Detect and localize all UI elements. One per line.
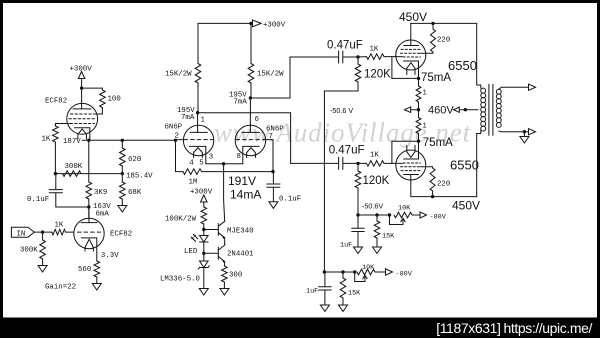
svg-text:0.47uF: 0.47uF — [329, 145, 365, 157]
svg-text:75mA: 75mA — [421, 72, 451, 84]
capacitor 1uF lower — [306, 272, 331, 305]
node cathode bottom — [417, 137, 453, 149]
label -50.6V top — [330, 106, 353, 115]
label Gain=22 — [45, 284, 76, 292]
wire grid V3 — [176, 139, 185, 141]
wire cathode V1 to 187V — [89, 128, 91, 141]
svg-text:8: 8 — [237, 153, 241, 161]
tube V6 6550 bottom — [396, 146, 426, 197]
wire Q2 collector — [224, 243, 226, 245]
svg-text:6550: 6550 — [450, 158, 479, 173]
wire IN to grid — [34, 231, 52, 233]
svg-text:560: 560 — [78, 266, 91, 274]
capacitor 1uF upper — [340, 215, 364, 249]
svg-text:6mA: 6mA — [96, 211, 110, 219]
node 460V tap — [417, 108, 420, 111]
label 191V 14mA — [228, 174, 261, 202]
power flag +300V stage1 — [70, 66, 93, 89]
resistor 1 bottom — [416, 110, 427, 142]
svg-text:IN: IN — [17, 230, 26, 238]
ground 300K — [38, 266, 47, 273]
wire primary top — [477, 23, 481, 88]
svg-text:191V: 191V — [228, 174, 256, 188]
svg-text:-50.6V: -50.6V — [362, 201, 383, 210]
resistor 15K/2W right — [248, 23, 284, 98]
wire primary bottom — [477, 130, 481, 196]
power flag +300V LTP — [253, 20, 286, 29]
ground 300 — [220, 289, 229, 296]
ground 1uF lower — [320, 305, 329, 312]
resistor 15K/2W left — [165, 23, 201, 112]
capacitor 0.47uF top — [327, 40, 363, 64]
wire bias bus upper — [358, 214, 390, 216]
svg-text:1uF: 1uF — [306, 287, 318, 295]
label pin6 — [255, 116, 259, 124]
node tail — [222, 162, 225, 165]
svg-text:1K: 1K — [55, 221, 64, 229]
svg-text:+300V: +300V — [70, 66, 93, 74]
svg-text:300K: 300K — [65, 163, 83, 171]
wire left plate to coupling2 — [198, 113, 339, 164]
label pin8 — [237, 153, 241, 161]
svg-text:7mA: 7mA — [234, 99, 248, 107]
svg-text:6550: 6550 — [448, 58, 477, 73]
svg-text:185.4V: 185.4V — [126, 173, 153, 181]
wire secondary top — [499, 87, 528, 89]
wire LED to zener — [203, 242, 205, 253]
resistor 1K g2 — [358, 152, 402, 167]
transformer T1 secondary — [496, 89, 501, 127]
wire 100 branch — [82, 88, 103, 90]
resistor 300K horizontal — [63, 163, 83, 176]
svg-text:10K: 10K — [398, 204, 411, 212]
svg-text:0.1uF: 0.1uF — [279, 196, 301, 204]
terminal output+ — [529, 84, 536, 90]
node bias upper — [356, 201, 383, 216]
svg-text:LED: LED — [184, 248, 198, 256]
ground secondary — [520, 132, 529, 143]
rail +300V LTP — [198, 22, 252, 24]
svg-text:15K/2W: 15K/2W — [257, 71, 284, 79]
label 6550 top — [448, 58, 477, 73]
svg-text:15K/2W: 15K/2W — [165, 71, 192, 79]
node 163V — [87, 203, 111, 219]
node rail — [249, 22, 252, 25]
node 220 top — [431, 22, 434, 25]
ground 68K — [118, 206, 127, 213]
svg-text:[1187x631]https://upic.me/: [1187x631]https://upic.me/ — [436, 320, 592, 336]
node 1K-cap junction — [54, 172, 57, 175]
svg-text:ECF82: ECF82 — [45, 98, 67, 106]
svg-text:5: 5 — [199, 160, 203, 168]
wire cap1 to grid — [343, 56, 358, 58]
tube V1 ECF82 pentode — [67, 103, 98, 139]
resistor 560 — [78, 261, 100, 284]
label pin1 — [201, 117, 206, 125]
node 15K upper — [375, 213, 378, 216]
wire tail to Q1 collector — [224, 172, 225, 222]
svg-text:Gain=22: Gain=22 — [45, 284, 76, 292]
wire grid drop to 1M — [176, 140, 184, 171]
resistor 15K lower — [340, 272, 361, 305]
diode LED — [184, 230, 208, 257]
wire cathode box bottom — [392, 141, 419, 163]
svg-text:-80V: -80V — [396, 270, 413, 278]
watermark — [214, 118, 472, 148]
svg-text:75mA: 75mA — [423, 137, 453, 149]
wire center tap — [465, 109, 478, 111]
wire bias bus lower — [324, 271, 355, 273]
resistor 68K — [120, 174, 142, 206]
rail 450V bottom — [411, 196, 477, 198]
wire 185.4V bus — [55, 173, 122, 175]
wire Q1 emitter to Q2 — [224, 238, 226, 243]
svg-text:220: 220 — [437, 36, 450, 44]
svg-text:15K: 15K — [382, 232, 395, 240]
resistor 15K upper — [374, 215, 395, 247]
ground 1uF upper — [354, 247, 363, 254]
resistor 620 — [120, 140, 142, 173]
label 460V — [428, 104, 454, 116]
svg-text:LM336-5.0: LM336-5.0 — [160, 276, 200, 284]
flag -80V lower — [375, 269, 413, 279]
resistor 100 — [100, 90, 121, 108]
ground 560 — [92, 284, 101, 291]
label 450V bottom — [452, 199, 480, 213]
svg-text:3: 3 — [209, 154, 213, 162]
resistor 1K g1 — [358, 45, 402, 59]
svg-text:3K9: 3K9 — [94, 189, 107, 197]
svg-text:1K: 1K — [370, 45, 379, 53]
node pot lower — [353, 270, 356, 273]
svg-text:68K: 68K — [128, 189, 142, 197]
svg-text:450V: 450V — [399, 10, 427, 24]
label 6550 bottom — [450, 158, 479, 173]
svg-text:120K: 120K — [364, 69, 391, 81]
wire cathode box top — [392, 57, 419, 79]
terminal IN — [11, 227, 34, 238]
wire cathode V4 pin8 — [242, 146, 244, 163]
wire cathode bus — [206, 163, 243, 165]
node grid V4 bypass — [271, 170, 274, 173]
svg-text:1: 1 — [423, 90, 427, 98]
node grid2 — [356, 162, 359, 165]
terminal output- — [529, 129, 536, 135]
svg-text:3.3V: 3.3V — [101, 252, 119, 260]
tube V3 6N6P left — [183, 113, 213, 158]
resistor 300K input — [20, 232, 45, 265]
ground 15K lower — [339, 305, 348, 312]
label pin3 — [209, 154, 213, 162]
svg-text:300K: 300K — [20, 247, 38, 255]
svg-text:7mA: 7mA — [181, 114, 195, 122]
node LED top — [202, 228, 205, 231]
node 185.4V — [121, 172, 154, 181]
svg-text:620: 620 — [128, 156, 141, 164]
tube V2 ECF82 triode — [74, 207, 104, 251]
wire secondary bottom — [499, 130, 528, 133]
resistor 1M — [183, 169, 202, 187]
svg-text:-50.6 V: -50.6 V — [330, 106, 353, 115]
resistor 120K bottom — [355, 163, 389, 215]
svg-text:0.1uF: 0.1uF — [27, 196, 49, 204]
wire tail down — [223, 164, 225, 172]
wire grid V1 — [55, 124, 70, 127]
node 620 top — [121, 139, 124, 142]
resistor 100K/2W — [165, 207, 207, 230]
resistor 1 top — [416, 78, 427, 109]
svg-text:1K: 1K — [42, 136, 51, 144]
node plate junction V1 — [80, 86, 83, 89]
node 195V right — [229, 92, 252, 107]
resistor 1K input — [52, 221, 66, 235]
label 3.3V — [101, 252, 119, 260]
wire 1M bus — [202, 171, 274, 173]
label ECF82 V2 — [110, 231, 132, 239]
resistor 1K grid V1 — [42, 126, 59, 144]
svg-text:100: 100 — [108, 96, 121, 104]
potentiometer 10K lower — [355, 264, 375, 282]
node 15K lower — [341, 270, 344, 273]
node pot upper — [388, 213, 391, 216]
capacitor 0.47uF bottom — [329, 145, 365, 170]
svg-text:MJE340: MJE340 — [227, 227, 254, 235]
svg-text:1M: 1M — [189, 179, 198, 187]
transformer T1 core — [489, 84, 493, 135]
node 187V — [63, 138, 91, 146]
wire 100 to screen — [94, 108, 102, 115]
svg-text:460V: 460V — [428, 104, 454, 116]
wire 1K to tube — [66, 231, 74, 233]
svg-text:450V: 450V — [452, 199, 480, 213]
wire cathode V3 pin3 — [205, 146, 207, 163]
svg-text:+300V: +300V — [190, 188, 213, 196]
power flag +300V CCS — [190, 188, 213, 207]
wire cap2 to grid — [343, 162, 358, 164]
tube V5 6550 top — [396, 23, 426, 74]
svg-text:14mA: 14mA — [230, 188, 261, 202]
svg-text:-80V: -80V — [430, 213, 447, 221]
ground LM336 — [199, 289, 208, 296]
flag 460V right — [454, 107, 466, 112]
label 450V top — [399, 10, 427, 24]
label ECF82 V1 — [45, 98, 67, 106]
node input — [41, 230, 44, 233]
svg-text:10K: 10K — [362, 264, 375, 272]
resistor 3K9 — [86, 182, 107, 199]
svg-text:6N6P: 6N6P — [165, 124, 183, 132]
transformer T1 primary — [481, 88, 486, 131]
node cathode top — [417, 72, 452, 84]
node secondary gnd — [523, 130, 526, 133]
svg-text:2N4401: 2N4401 — [227, 250, 254, 258]
svg-text:300: 300 — [229, 272, 242, 280]
wire plate V1 to +300V — [81, 88, 83, 109]
transistor Q1 MJE340 — [204, 221, 254, 239]
diode LM336-5.0 — [160, 253, 209, 288]
flag 460V left — [405, 107, 419, 113]
node center tap — [464, 108, 467, 111]
potentiometer 10K upper — [390, 204, 413, 224]
node grid V3 — [174, 139, 177, 142]
node zener top — [202, 252, 205, 255]
resistor 220 bottom — [421, 167, 451, 197]
label pin4 pin5 — [189, 160, 203, 168]
svg-text:4: 4 — [189, 160, 194, 168]
svg-text:15K: 15K — [348, 289, 361, 297]
wire right plate to coupling1 — [250, 57, 338, 98]
wire 3K9 to plate V2 — [88, 199, 90, 218]
svg-text:+300V: +300V — [263, 21, 286, 29]
transistor Q2 2N4401 — [204, 245, 254, 263]
svg-text:120K: 120K — [363, 175, 390, 187]
node 220 bottom — [431, 195, 434, 198]
svg-text:100K/2W: 100K/2W — [165, 216, 197, 224]
label 6N6P left — [165, 124, 183, 141]
svg-text:1uF: 1uF — [340, 241, 352, 249]
ground 15K upper — [373, 247, 382, 254]
flag -80V upper — [412, 212, 447, 221]
svg-text:1: 1 — [423, 123, 427, 131]
wire 187V bus — [82, 139, 175, 141]
svg-text:ECF82: ECF82 — [110, 231, 132, 239]
node bias lower — [323, 270, 326, 273]
tube V4 6N6P right — [235, 98, 265, 158]
node 195V left — [177, 107, 199, 122]
svg-text:220: 220 — [437, 180, 450, 188]
capacitor 0.1uF LTP — [267, 172, 301, 204]
svg-text:1K: 1K — [370, 152, 379, 160]
wire grid V4 — [266, 140, 274, 172]
capacitor 0.1uF stage1 — [27, 174, 89, 207]
svg-text:0.47uF: 0.47uF — [327, 40, 363, 52]
ground 0.1uF LTP — [269, 202, 278, 209]
resistor 300 — [222, 262, 243, 289]
wire riser 3K9 — [88, 140, 90, 182]
node grid1 — [356, 55, 359, 58]
resistor 120K top — [324, 57, 391, 272]
svg-text:6: 6 — [255, 116, 259, 124]
svg-text:1: 1 — [201, 117, 206, 125]
label 6N6P right — [266, 125, 284, 141]
resistor 220 top — [421, 23, 451, 53]
wire 1K down — [54, 142, 56, 174]
svg-text:187V: 187V — [63, 138, 81, 146]
rail 450V top — [411, 22, 477, 24]
wire cathode V2 — [96, 238, 98, 261]
